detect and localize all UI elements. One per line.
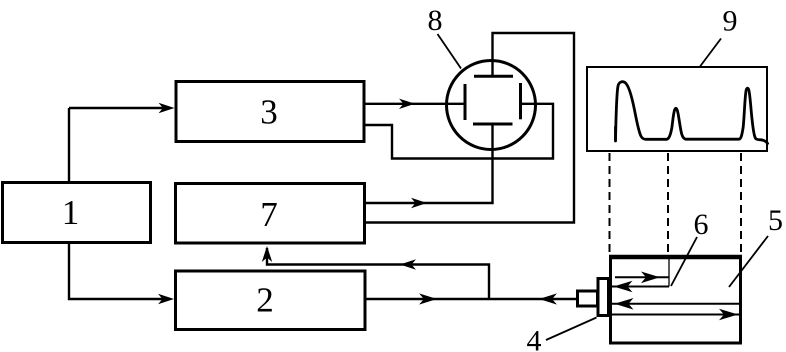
svg-text:1: 1 bbox=[62, 193, 80, 232]
svg-text:8: 8 bbox=[428, 4, 443, 37]
svg-text:5: 5 bbox=[768, 204, 783, 237]
svg-text:2: 2 bbox=[256, 281, 274, 320]
svg-text:3: 3 bbox=[260, 93, 278, 132]
svg-text:6: 6 bbox=[694, 208, 709, 241]
svg-text:7: 7 bbox=[260, 195, 278, 234]
svg-text:4: 4 bbox=[527, 324, 542, 352]
svg-text:9: 9 bbox=[723, 5, 738, 38]
